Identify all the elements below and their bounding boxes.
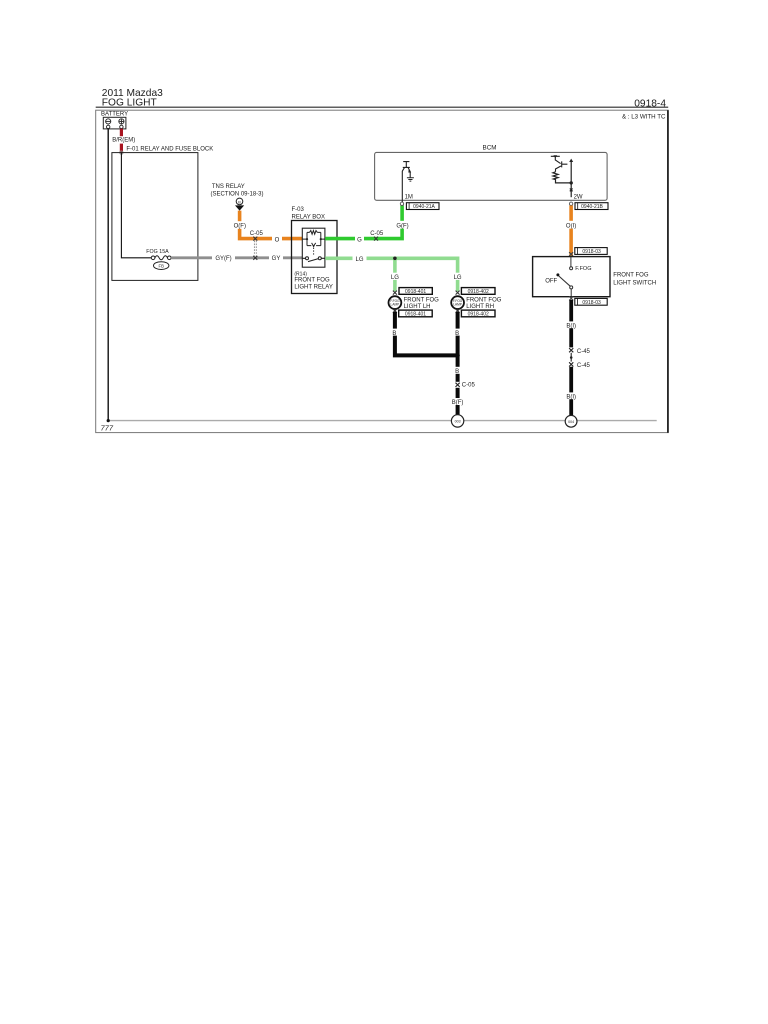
TNS relay circled code (236, 198, 243, 205)
svg-text:2W: 2W (574, 194, 583, 200)
switch bottom connector (569, 296, 573, 300)
connector C-05 on B wire (455, 382, 461, 388)
svg-text:0940-21A: 0940-21A (413, 204, 435, 210)
svg-text:O(F): O(F) (234, 223, 246, 229)
label B main (453, 367, 462, 374)
svg-text:LAMP: LAMP (453, 303, 462, 307)
relay coil-switch dashed link (313, 248, 315, 256)
label B(I) upper (565, 321, 578, 328)
diagram frame (96, 110, 669, 432)
BCM left driver transistor (403, 162, 410, 168)
LH connector label 0918-401 top (399, 288, 432, 295)
wire B/R battery positive seg2 (120, 144, 123, 153)
svg-text:B: B (238, 199, 241, 204)
front fog light RH bulb (451, 296, 464, 309)
svg-text:LG: LG (454, 275, 462, 281)
svg-text:B(I): B(I) (566, 323, 576, 329)
wire LG relay to fog lights (325, 258, 457, 291)
FB oval (154, 262, 169, 270)
wire B RH lamp (456, 312, 460, 356)
wire B LH lamp (395, 312, 458, 356)
svg-text:LG: LG (391, 275, 399, 281)
junction B (455, 353, 459, 357)
LH connector label 0918-401 bottom (399, 310, 433, 317)
svg-text:LAMP: LAMP (391, 303, 400, 307)
label LG RH (452, 273, 464, 280)
svg-text:BATTERY: BATTERY (101, 112, 128, 118)
svg-text:O(I): O(I) (566, 223, 576, 229)
ground bus line (108, 420, 657, 422)
svg-text:G: G (357, 237, 362, 243)
BCM connector label 0940-21B (575, 203, 608, 211)
label GY(F) (212, 254, 235, 262)
svg-text:FB: FB (159, 263, 165, 268)
svg-text:B(I): B(I) (566, 394, 576, 400)
svg-text:F-03: F-03 (292, 207, 305, 213)
svg-text:0918-401: 0918-401 (405, 312, 426, 318)
RH lamp bottom connector (456, 309, 460, 313)
svg-text:TNS RELAY: TNS RELAY (212, 184, 245, 190)
wire battery negative to ground bus (107, 129, 109, 421)
svg-text:& : L3 WITH TC: & : L3 WITH TC (622, 113, 666, 120)
relay R14 inner box (302, 228, 325, 267)
svg-text:LIGHT RELAY: LIGHT RELAY (294, 284, 332, 290)
label O(F) (233, 221, 247, 229)
svg-text:B/R(EM): B/R(EM) (112, 138, 135, 144)
BCM box (375, 152, 607, 200)
wire GY fuse to relay box (171, 256, 302, 259)
wire B switch upper (569, 300, 573, 348)
front fog light LH bulb (389, 296, 402, 309)
TNS relay arrow (235, 205, 244, 210)
connector C-05 on G wire (374, 237, 378, 241)
connector C-05 on O wire (253, 237, 257, 241)
relay switch (302, 257, 325, 259)
front fog light switch box (533, 257, 610, 297)
svg-text:B: B (392, 331, 396, 337)
svg-text:RELAY BOX: RELAY BOX (292, 215, 325, 221)
fuse FOG 15A (151, 256, 155, 260)
connector C-45 upper (568, 347, 574, 353)
dashed link C-05 (253, 241, 255, 256)
battery minus post circle (107, 125, 110, 128)
ground point lamps (451, 415, 463, 427)
svg-text:0918-03: 0918-03 (582, 249, 601, 255)
svg-text:OFF: OFF (545, 278, 557, 284)
svg-text:(SECTION 09-18-3): (SECTION 09-18-3) (211, 192, 264, 198)
switch connector label 0918-03 top (575, 248, 607, 256)
label GY (269, 254, 283, 262)
wire B/R battery positive seg1 (120, 129, 123, 137)
label LG LH (389, 273, 401, 280)
svg-text:G(F): G(F) (396, 223, 408, 229)
svg-text:C-45: C-45 (577, 349, 591, 355)
svg-text:F.FOG: F.FOG (575, 266, 591, 272)
connector C-45 lower (568, 362, 574, 368)
svg-text:(R14): (R14) (294, 271, 307, 277)
svg-text:B: B (455, 331, 459, 337)
relay coil (302, 232, 325, 245)
svg-text:B: B (455, 369, 459, 375)
F-03 relay box (292, 221, 338, 294)
label G (355, 235, 364, 243)
RH connector label 0918-402 bottom (461, 310, 495, 317)
label B(F) (451, 398, 465, 405)
frame right border (667, 110, 669, 433)
label O (272, 235, 282, 243)
svg-text:FRONT FOG: FRONT FOG (294, 278, 330, 284)
svg-text:F-01 RELAY AND FUSE BLOCK: F-01 RELAY AND FUSE BLOCK (126, 147, 213, 153)
svg-text:003: 003 (455, 420, 461, 424)
F-01 relay and fuse block box (112, 153, 198, 281)
connector C-05 on GY wire (253, 256, 257, 260)
title underline (96, 106, 669, 108)
LG branch to LH (393, 258, 397, 291)
svg-text:C-05: C-05 (250, 231, 264, 237)
label B LH (390, 329, 399, 336)
RH lamp top connector (456, 291, 460, 295)
BCM resistor (553, 172, 571, 183)
wire B switch lower (569, 367, 573, 416)
wire O from TNS relay (240, 211, 303, 239)
label B RH (453, 329, 462, 336)
junction LG (393, 257, 397, 261)
LH lamp bottom connector (393, 309, 397, 313)
BCM right transistor circuit (551, 156, 568, 172)
svg-text:O: O (275, 237, 280, 243)
connector at F-01 entry (120, 151, 123, 154)
switch internals (570, 257, 572, 267)
switch connector label 0918-03 bottom (575, 298, 607, 306)
battery plus terminal (119, 119, 124, 124)
LH lamp top connector (393, 291, 397, 295)
svg-text:0918-401: 0918-401 (405, 289, 426, 295)
RH connector label 0918-402 top (461, 288, 495, 295)
wire G relay to BCM (325, 205, 402, 238)
svg-text:777: 777 (101, 424, 114, 433)
wire B to ground (456, 355, 460, 415)
svg-text:LIGHT LH: LIGHT LH (404, 304, 431, 310)
svg-text:0918-4: 0918-4 (634, 99, 666, 110)
X mark on output (570, 189, 573, 192)
svg-text:FOG 15A: FOG 15A (146, 249, 169, 255)
wire O BCM to switch (569, 206, 573, 257)
svg-text:FRONT FOG: FRONT FOG (613, 273, 649, 279)
wire link between C-45 (570, 353, 572, 362)
svg-text:LIGHT SWITCH: LIGHT SWITCH (613, 281, 656, 287)
svg-text:C-45: C-45 (577, 363, 591, 369)
switch top connector (569, 252, 573, 256)
label G(F) (395, 221, 410, 229)
svg-text:0940-21B: 0940-21B (581, 204, 603, 210)
svg-text:FRONT FOG: FRONT FOG (466, 297, 502, 303)
svg-text:B(F): B(F) (452, 400, 464, 406)
label B(I) lower (565, 392, 578, 399)
svg-text:C-05: C-05 (370, 231, 384, 237)
svg-text:C-05: C-05 (462, 382, 476, 388)
BCM output line with arrow (570, 161, 572, 197)
svg-text:0918-402: 0918-402 (468, 289, 489, 295)
battery B+B- box (103, 117, 126, 129)
ground point switch (565, 415, 577, 427)
svg-text:LIGHT RH: LIGHT RH (466, 304, 494, 310)
svg-text:0918-402: 0918-402 (468, 312, 489, 318)
svg-text:004: 004 (568, 420, 574, 424)
svg-text:LG: LG (355, 257, 363, 263)
battery plus post circle (120, 125, 123, 128)
label O(I) (564, 221, 578, 229)
svg-text:GY: GY (272, 256, 281, 262)
BCM internal ground (407, 178, 414, 181)
BCM connector label 0940-21A (406, 203, 439, 211)
svg-text:GY(F): GY(F) (215, 256, 231, 262)
battery minus terminal (106, 119, 111, 124)
svg-text:0918-03: 0918-03 (582, 300, 601, 306)
wire inside F-01 to fuse (121, 153, 151, 258)
svg-text:FRONT FOG: FRONT FOG (404, 297, 440, 303)
label LG horizontal (353, 254, 367, 262)
svg-text:1M: 1M (405, 194, 413, 200)
svg-text:BCM: BCM (483, 145, 497, 152)
junction ground bus (107, 419, 110, 422)
